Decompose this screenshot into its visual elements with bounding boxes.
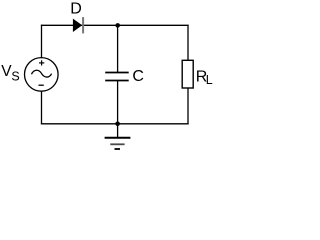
sine wave inside source [32, 70, 52, 77]
svg-text:L: L [206, 73, 213, 87]
svg-text:C: C [132, 68, 144, 85]
wire: left vertical from top rail down to source top [41, 25, 43, 59]
wire: right vertical from resistor bottom to bottom rail [187, 88, 189, 125]
label RL [196, 69, 213, 88]
diode D: anode triangle [73, 19, 82, 32]
capacitor C: top plate [105, 72, 129, 74]
wire: top rail from source top corner to right corner [41, 24, 189, 26]
svg-text:S: S [11, 70, 19, 84]
minus sign inside source [39, 84, 44, 86]
ground symbol [105, 138, 131, 149]
junction node: top rail / capacitor branch [115, 23, 120, 28]
wire: right vertical from top rail corner down to resistor top [187, 25, 189, 61]
label VS [1, 63, 20, 84]
label C [132, 68, 144, 85]
resistor RL body [182, 60, 193, 88]
wire: ground stem below bottom-rail junction [117, 124, 119, 138]
plus sign inside source [39, 60, 44, 65]
junction node: bottom rail / capacitor branch [115, 122, 120, 127]
wire: left vertical from source bottom to bottom rail [41, 91, 43, 124]
wire: bottom rail [41, 123, 189, 125]
wire: capacitor branch from top rail to top plate [117, 25, 119, 72]
wire: capacitor branch from bottom plate to bottom rail [117, 81, 119, 124]
svg-text:D: D [70, 1, 82, 18]
capacitor C: bottom plate [105, 80, 129, 82]
diode D: cathode bar [82, 17, 84, 33]
AC source VS circle [25, 58, 59, 92]
label D [70, 1, 82, 18]
